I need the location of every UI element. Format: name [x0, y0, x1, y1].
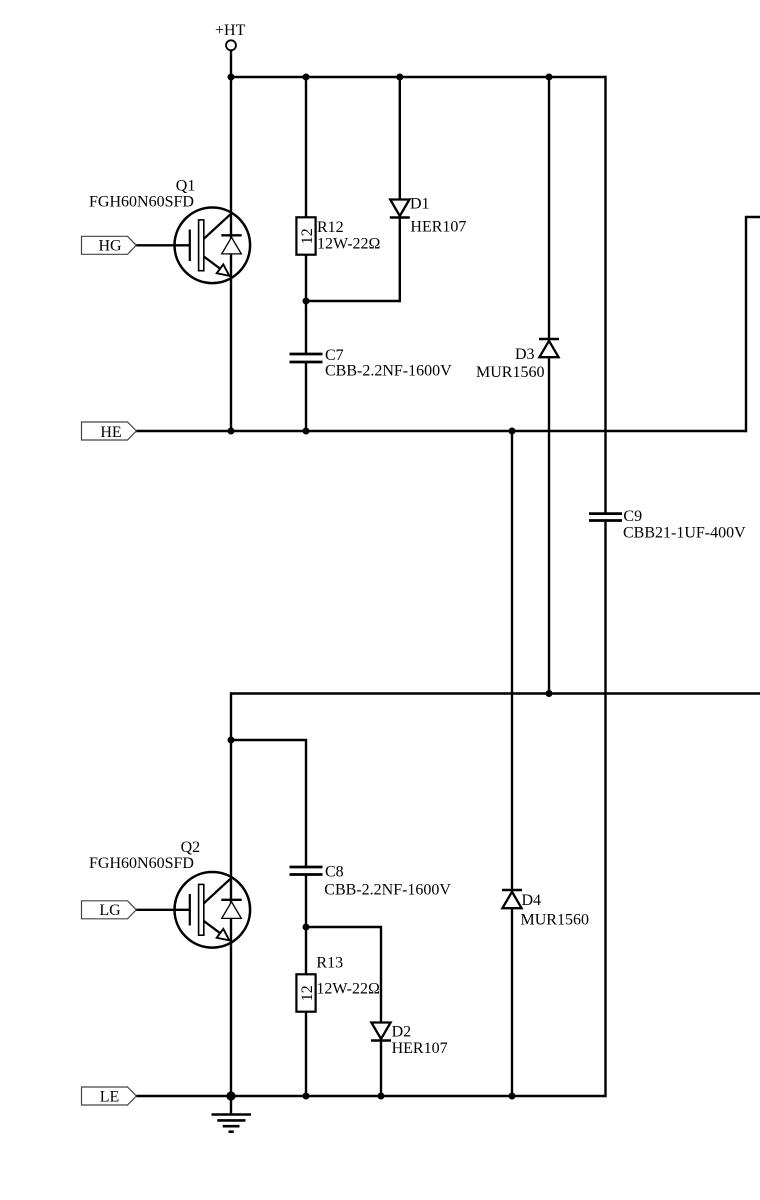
svg-text:D3: D3 [515, 346, 535, 363]
resistor R12 [296, 217, 316, 254]
svg-text:MUR1560: MUR1560 [521, 912, 589, 929]
wire LG to Q2 gate [136, 909, 190, 911]
wire Q1 collector-emitter vertical [230, 77, 232, 431]
svg-text:HE: HE [100, 424, 121, 441]
wire R13 bottom [305, 1011, 307, 1096]
transistor Q2 FGH60N60SFD [175, 872, 251, 948]
wire C8 bottom [305, 875, 307, 928]
wire D3 cathode [548, 77, 550, 339]
capacitor C7 [290, 354, 323, 362]
junction LE / R13 [303, 1093, 310, 1100]
svg-text:FGH60N60SFD: FGH60N60SFD [89, 194, 194, 211]
svg-text:12: 12 [299, 228, 316, 244]
wire bus drop to C9 [604, 76, 606, 513]
resistor R13 [296, 974, 316, 1011]
wire C9 to LE corner [604, 521, 606, 1097]
wire HG to Q1 gate [136, 244, 190, 246]
svg-text:D4: D4 [522, 892, 542, 909]
svg-text:HER107: HER107 [392, 1040, 448, 1057]
wire D2 cathode [380, 1041, 382, 1097]
junction LE / D2 [378, 1093, 385, 1100]
svg-text:R12: R12 [317, 219, 344, 236]
ground symbol [212, 1096, 252, 1132]
wire D4 anode [511, 909, 513, 1097]
junction +HT rail / D1 [396, 74, 403, 81]
svg-text:C8: C8 [325, 864, 344, 881]
svg-text:12W-22Ω: 12W-22Ω [317, 236, 381, 253]
svg-text:LE: LE [100, 1088, 120, 1105]
wire D2 branch [306, 927, 381, 1023]
wire HE net [136, 430, 746, 432]
svg-text:HER107: HER107 [410, 218, 466, 235]
wire D1 cathode [399, 218, 401, 303]
port flag LG [82, 901, 137, 919]
junction C8 / R13 / D2 node [303, 924, 310, 931]
svg-text:12W-22Ω: 12W-22Ω [316, 981, 380, 998]
wire R12 bottom [305, 254, 307, 301]
svg-text:CBB-2.2NF-1600V: CBB-2.2NF-1600V [325, 363, 452, 380]
junction HE / C7 [303, 428, 310, 435]
svg-text:CBB21-1UF-400V: CBB21-1UF-400V [623, 525, 746, 542]
diode D4 MUR1560 [502, 890, 522, 908]
svg-text:HG: HG [98, 238, 122, 255]
wire R13 top [305, 927, 307, 975]
wire HE to right edge [746, 217, 760, 432]
svg-text:C7: C7 [325, 347, 344, 364]
svg-text:Q1: Q1 [176, 178, 196, 195]
wire top rail [230, 76, 606, 78]
svg-text:R13: R13 [316, 955, 343, 972]
transistor Q1 FGH60N60SFD [175, 208, 251, 284]
wire mid rail [231, 692, 760, 694]
port flag LE [82, 1087, 137, 1105]
wire +HT stub [230, 51, 232, 79]
svg-text:D2: D2 [392, 1023, 412, 1040]
wire D4 cathode [511, 431, 513, 890]
junction Q2 collector / C8 branch [228, 737, 235, 744]
wire C7 top [305, 301, 307, 354]
svg-text:MUR1560: MUR1560 [476, 364, 544, 381]
wire C8 branch [231, 740, 306, 868]
wire R12 top branch [305, 77, 307, 218]
junction LE / ground [226, 1091, 235, 1100]
diode D2 HER107 [371, 1023, 391, 1041]
wire R12 to D1 link [306, 300, 400, 302]
wire C7 bottom [305, 362, 307, 431]
svg-text:Q2: Q2 [181, 839, 201, 856]
capacitor C8 [290, 867, 323, 875]
junction HE / D4 [509, 428, 516, 435]
svg-text:12: 12 [299, 985, 316, 1001]
junction +HT rail / D3 [546, 74, 553, 81]
junction +HT rail / Q1 [228, 74, 235, 81]
diode D1 HER107 [390, 200, 410, 218]
junction +HT rail / R12 [303, 74, 310, 81]
svg-text:+HT: +HT [215, 22, 246, 39]
svg-text:D1: D1 [410, 196, 430, 213]
diode D3 MUR1560 [539, 339, 559, 357]
wire Q2 collector-emitter vertical [230, 692, 232, 1096]
svg-text:CBB-2.2NF-1600V: CBB-2.2NF-1600V [324, 882, 451, 899]
svg-text:C9: C9 [623, 508, 642, 525]
port flag HE [82, 422, 137, 441]
svg-text:LG: LG [99, 902, 121, 919]
junction HE / Q1 emitter [228, 428, 235, 435]
junction LE / D4 [509, 1093, 516, 1100]
svg-text:FGH60N60SFD: FGH60N60SFD [89, 855, 194, 872]
port flag HG [82, 236, 137, 254]
wire D3 anode [548, 358, 550, 694]
wire D1 anode [399, 77, 401, 200]
power +HT terminal [215, 22, 246, 50]
junction mid rail / D3 [546, 690, 553, 697]
capacitor C9 [589, 514, 622, 521]
wire LE net [136, 1095, 606, 1097]
junction R12/D1 node [303, 298, 310, 305]
